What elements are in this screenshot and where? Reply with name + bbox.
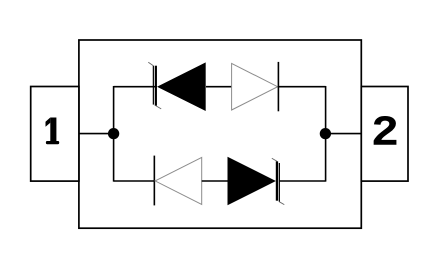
diode D2 (top right, cathode right) [232,62,279,111]
diode D4 (TVS zener, bottom right, cathode right) [228,157,285,206]
pin 2 terminal box [361,87,408,182]
wire D2 cathode to node B [278,86,325,88]
package outline [79,40,361,228]
diode D3 (bottom left, cathode left) [154,156,201,206]
diode D1 (TVS zener, top left, cathode left) [148,62,205,111]
wire D4 cathode to node B [279,180,325,182]
node A junction dot [108,128,119,139]
wire node B to pin 2 [325,133,361,135]
wire left riser (node A vertical) [113,86,115,182]
node B junction dot [320,128,331,139]
wire pin 1 to node A [79,133,114,135]
wire right riser (node B vertical) [325,86,327,182]
wire D3 anode to D4 anode [202,180,228,182]
pin 1 terminal box [31,87,79,182]
pin 2 label [374,116,397,145]
pin 1 label [46,118,60,145]
wire node A to D1 cathode [114,86,157,88]
wire D1 anode to D2 anode [206,86,232,88]
wire node A to D3 cathode [114,180,155,182]
